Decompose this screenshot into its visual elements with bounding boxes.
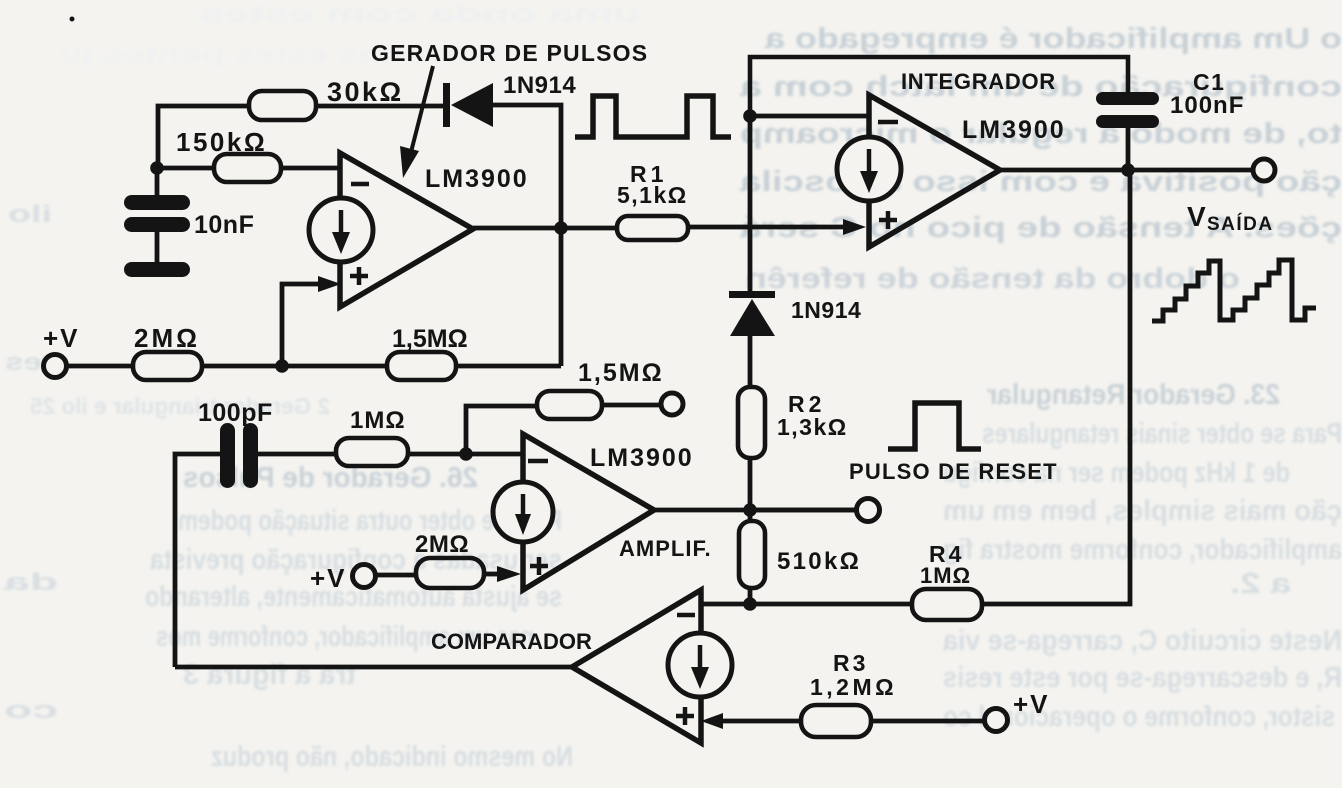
svg-text:LM3900: LM3900 (590, 444, 694, 472)
wire +V to 2M (375, 573, 416, 578)
svg-text:AMPLIF.: AMPLIF. (619, 536, 712, 561)
resistor R4 1M (912, 541, 982, 620)
label V SAIDA (1187, 201, 1274, 235)
wire U4 minus to R4 (701, 602, 912, 607)
svg-text:+V: +V (43, 323, 80, 353)
ink speck (70, 17, 75, 22)
staircase waveform symbol (1152, 260, 1316, 321)
svg-text:150kΩ: 150kΩ (176, 127, 267, 157)
svg-text:1,2MΩ: 1,2MΩ (810, 674, 897, 700)
svg-text:1MΩ: 1MΩ (350, 407, 406, 434)
wire U3 output (654, 508, 857, 513)
svg-text:1N914: 1N914 (791, 297, 861, 323)
U3 current source (493, 482, 553, 542)
svg-text:SAÍDA: SAÍDA (1207, 213, 1274, 235)
svg-text:1,3kΩ: 1,3kΩ (777, 414, 848, 440)
svg-text:ção mais simples, bem em um: ção mais simples, bem em um (943, 495, 1342, 527)
label GERADOR DE PULSOS (371, 40, 648, 66)
wire node B to capacitor (155, 168, 160, 196)
node F junction (743, 503, 757, 517)
svg-text:da: da (3, 569, 58, 596)
U3 minus sign (528, 459, 548, 464)
U2 current source (837, 137, 901, 201)
terminal +V amplifier (310, 563, 376, 593)
node H junction (459, 447, 473, 461)
wire R3 to +V (871, 719, 985, 724)
reset pulse symbol (888, 403, 981, 449)
annotation arrow to pulse generator op-amp (400, 66, 433, 178)
U3 plus sign (530, 557, 548, 575)
wire U4 output left (175, 665, 572, 670)
terminal +V comparator (985, 689, 1050, 732)
wire node B to 150k (156, 166, 214, 171)
wire 100pF to 1M (258, 452, 336, 457)
svg-text:1,5MΩ: 1,5MΩ (578, 359, 664, 387)
svg-text:23. Gerador Retangular: 23. Gerador Retangular (987, 379, 1280, 411)
svg-text:+V: +V (310, 563, 347, 593)
node D junction (743, 109, 757, 123)
resistor 1.5M bottom rail (387, 325, 468, 380)
wire 1.5M to terminal (602, 403, 662, 408)
resistor 510k (739, 521, 861, 588)
resistor 150k (176, 127, 281, 182)
wire 510k to node G (748, 588, 753, 604)
wire R3 to U4 plus arrow (701, 713, 801, 729)
terminal V saida (1253, 159, 1275, 181)
svg-text:LM3900: LM3900 (962, 116, 1066, 144)
U4 minus sign (677, 613, 695, 618)
svg-text:uma onda com estes: uma onda com estes (200, 1, 640, 28)
square wave symbol (575, 96, 731, 137)
svg-text:Para se obter sinais retangula: Para se obter sinais retangulares (982, 418, 1342, 450)
svg-text:No mesmo indicado, não produz: No mesmo indicado, não produz (211, 741, 573, 773)
wire 1M to U3 minus (408, 452, 523, 457)
svg-text:PULSO DE RESET: PULSO DE RESET (849, 459, 1058, 484)
svg-text:+V: +V (1013, 689, 1050, 719)
resistor 30k (249, 77, 404, 120)
wire 150k to U1 minus (281, 166, 340, 171)
terminal reset (857, 499, 880, 522)
U4 current source (668, 633, 732, 697)
svg-text:co: co (4, 697, 58, 724)
wire feedback top (750, 57, 1128, 116)
wire node D down to D2 (748, 116, 753, 292)
wire node H to 1.5M feedback (466, 406, 537, 454)
U4 plus sign (676, 707, 694, 725)
node A junction (554, 221, 568, 235)
svg-text:GERADOR DE PULSOS: GERADOR DE PULSOS (371, 40, 648, 66)
capacitor 10nF (124, 195, 254, 277)
wire R2 to node F (748, 458, 753, 521)
wire C1 to output (1126, 128, 1131, 170)
resistor R1 5,1k (617, 161, 688, 240)
resistor 1M amplifier (336, 407, 408, 466)
node E output junction (1121, 163, 1135, 177)
svg-text:510kΩ: 510kΩ (777, 548, 861, 575)
terminal 1.5M (661, 393, 683, 415)
op-amp U3 LM3900 amplifier (523, 434, 712, 590)
resistor 1.5M feedback (537, 359, 664, 419)
svg-text:a 2.: a 2. (1230, 568, 1291, 600)
resistor 2M amplifier (415, 531, 484, 588)
svg-text:2 Gerador triangular e ilo 25: 2 Gerador triangular e ilo 25 (30, 393, 330, 419)
svg-text:amplificador, conforme mostra: amplificador, conforme mostra fig (943, 534, 1342, 566)
node C junction (275, 359, 289, 373)
U1 plus sign (350, 267, 368, 285)
node B junction (150, 161, 164, 175)
svg-text:2MΩ: 2MΩ (415, 531, 469, 558)
wire diode to node A (493, 105, 561, 228)
svg-text:1,5MΩ: 1,5MΩ (392, 325, 468, 353)
svg-text:tra a figura 3: tra a figura 3 (183, 659, 356, 691)
capacitor C1 100nF (1096, 69, 1244, 128)
svg-text:o dobro da tensão de referên: o dobro da tensão de referên (745, 263, 1240, 295)
resistor R3 1,2M (801, 650, 897, 737)
U2 plus sign (879, 211, 897, 229)
U1 minus sign (351, 182, 369, 187)
svg-text:o Um amplificador é empregado: o Um amplificador é empregado a (764, 23, 1342, 55)
wire node A vertical (559, 228, 564, 366)
U1 current source (309, 198, 373, 262)
svg-text:V: V (1187, 201, 1206, 232)
diode D1 1N914 (443, 72, 576, 127)
svg-text:R3: R3 (833, 650, 868, 676)
wire R4 to node E vertical (982, 170, 1130, 604)
svg-text:COMPARADOR: COMPARADOR (431, 629, 592, 654)
svg-text:ilo: ilo (8, 201, 52, 228)
svg-text:30kΩ: 30kΩ (327, 77, 404, 107)
wire R1 to U2 plus arrow (688, 219, 866, 235)
diode D2 1N914 vertical (729, 291, 861, 336)
svg-text:10nF: 10nF (194, 211, 254, 239)
wire U1 output (473, 226, 617, 231)
wire +V to 2M (66, 364, 133, 369)
svg-text:se ajusta automaticamente, alt: se ajusta automaticamente, alterando (145, 581, 562, 613)
op-amp U4 comparator (431, 590, 701, 743)
wire D2 to R2 (748, 336, 753, 388)
wire node F to reset terminal (750, 508, 857, 513)
svg-text:1MΩ: 1MΩ (920, 563, 971, 588)
svg-text:1N914: 1N914 (503, 72, 576, 99)
svg-text:100nF: 100nF (1170, 92, 1244, 119)
op-amp U1 LM3900 pulse generator (340, 153, 529, 307)
terminal +V top rail (43, 323, 80, 378)
wire 30k top-left corner (158, 106, 250, 168)
svg-text:2MΩ: 2MΩ (134, 323, 200, 353)
resistor 2M (133, 323, 202, 380)
wire 2M to 1.5M (202, 364, 387, 369)
svg-text:INTEGRADOR: INTEGRADOR (901, 69, 1056, 94)
node G junction (743, 597, 757, 611)
op-amp U2 LM3900 integrator (869, 95, 1066, 247)
wire 100pF to U4 output (175, 454, 220, 667)
wire U2 minus input (750, 114, 869, 119)
svg-text:100pF: 100pF (198, 399, 273, 427)
wire node C to U1 plus input arrow (282, 276, 341, 366)
svg-text:LM3900: LM3900 (425, 165, 529, 193)
wire 1.5M to node A (456, 364, 561, 369)
capacitor 100pF (198, 399, 273, 488)
wire U2 output (1000, 168, 1254, 173)
wire 2M to U3 plus arrow (484, 566, 521, 582)
wire 30k to diode D1 (316, 104, 445, 109)
svg-text:5,1kΩ: 5,1kΩ (617, 182, 688, 208)
svg-text:R, e descarrega-se por este re: R, e descarrega-se por este resis (943, 662, 1342, 694)
U2 minus sign (878, 120, 898, 125)
resistor R2 1,3k (738, 387, 848, 458)
svg-text:Neste circuito C, carrega-se v: Neste circuito C, carrega-se via (942, 625, 1342, 657)
